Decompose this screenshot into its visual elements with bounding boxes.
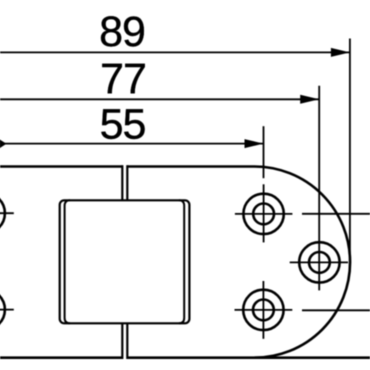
hinge pin line upper-right (126, 165, 128, 200)
hinge pin line lower-left (121, 323, 123, 359)
arrowhead right of dim 55 (245, 139, 264, 148)
hinge leaf square: inner left fold line (65, 200, 70, 323)
hole A inner circle (253, 204, 274, 225)
svg-text:89: 89 (99, 8, 145, 56)
extension line for 55 at x=263.5 (263, 126, 265, 178)
hinge pin line lower-right (126, 323, 128, 359)
left leaf hole D horizontal centerline (0, 212, 14, 214)
hinge leaf square: outer rounded rectangle (60, 200, 190, 323)
hinge leaf square: inner right fold line (179, 200, 184, 323)
part outline: semicircular right end arc (255, 167, 351, 358)
hole C horizontal centerline (235, 309, 293, 311)
arrowhead right of dim 89 (331, 48, 350, 57)
part outline: bottom edge left of pin gap (0, 356, 122, 359)
hole A horizontal centerline (235, 213, 293, 215)
dimension line 77 (0, 98, 319, 100)
left leaf hole E outer circle (clipped at left edge) (0, 289, 5, 329)
svg-text:77: 77 (100, 55, 146, 103)
arrowhead left of dim 55 (clipped at image edge) (0, 139, 7, 148)
hole B inner circle (309, 252, 330, 273)
left leaf hole D outer circle (clipped at left edge) (0, 193, 5, 233)
arrowhead right of dim 77 (300, 95, 319, 104)
hole B horizontal centerline (290, 261, 348, 263)
right-side extension line at hole C level (302, 309, 370, 311)
dimension line 55 (0, 143, 264, 145)
extension line for 89 at x=350 (349, 39, 351, 266)
part outline: bottom edge right of pin gap (127, 356, 370, 359)
part outline: top edge right of pin gap (127, 165, 254, 168)
hole C inner circle (253, 300, 274, 321)
right-side extension line at hole A level (302, 213, 370, 215)
hole A vertical centerline (263, 184, 265, 242)
part outline: top edge left of pin gap (0, 165, 122, 168)
hinge pin line upper-left (121, 165, 123, 200)
extension line for 77 / hole B centerline at x=319 (318, 86, 320, 291)
hole C outer circle (243, 290, 283, 330)
hole B outer circle (299, 242, 339, 282)
hole A outer circle (243, 194, 283, 234)
hole C vertical centerline (262, 281, 264, 339)
left leaf hole E horizontal centerline (0, 309, 14, 311)
dimension line 89 (0, 51, 350, 53)
svg-text:55: 55 (100, 101, 146, 149)
